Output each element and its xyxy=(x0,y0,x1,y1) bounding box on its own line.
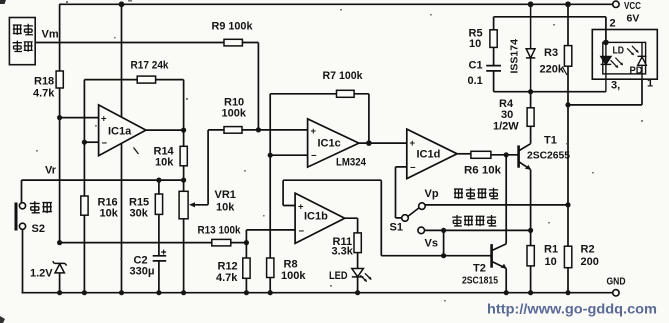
wire: step up to IC1b inverting input xyxy=(246,230,295,243)
svg-text:R1: R1 xyxy=(544,244,558,256)
resistor R4 xyxy=(527,108,534,127)
wire: IC1d output to R6 xyxy=(457,153,471,155)
wire: T1 emitter down through Vs node to R1 xyxy=(530,170,532,246)
wire: IC1c inverting input xyxy=(270,154,307,156)
svg-text:10: 10 xyxy=(469,38,481,50)
junction: zener column on ground rail xyxy=(57,290,62,295)
wire: R12 to ground xyxy=(245,243,247,293)
junction: IC1a inverting input node xyxy=(82,140,87,145)
wire: S2 bottom to ground rail xyxy=(22,230,24,293)
signal source box 调制信号 xyxy=(9,18,35,65)
svg-text:IC1b: IC1b xyxy=(304,211,328,223)
wire: R2 column lower part xyxy=(567,205,569,293)
op-amp IC1c xyxy=(308,119,359,167)
PD reception arrows xyxy=(627,46,639,56)
svg-text:1: 1 xyxy=(647,78,653,90)
svg-text:220k: 220k xyxy=(540,64,565,76)
junction: LED on ground rail xyxy=(355,290,360,295)
resistor R7 xyxy=(337,90,355,97)
junction: R3 on top rail xyxy=(565,1,571,7)
wire: R7 feedback loop xyxy=(270,94,369,155)
svg-text:−: − xyxy=(410,163,416,174)
svg-text:+: + xyxy=(410,138,416,149)
wire: R9 right to IC1c+ column xyxy=(242,43,258,130)
svg-text:LED: LED xyxy=(329,270,348,282)
svg-text:3,: 3, xyxy=(611,80,620,92)
junction: R1 on ground rail xyxy=(528,290,533,295)
svg-text:http://www.go-gddq.com: http://www.go-gddq.com xyxy=(487,301,657,317)
wire: IC1b output to R11 xyxy=(345,218,358,268)
svg-text:LD: LD xyxy=(613,45,625,57)
svg-text:100k: 100k xyxy=(281,270,306,282)
wire: R15 / C2 column xyxy=(158,180,160,293)
wire: R5/C1 snubber column xyxy=(493,17,495,92)
svg-text:+: + xyxy=(311,126,317,137)
junction: R12 on ground rail xyxy=(244,290,249,295)
op-amp IC1d xyxy=(407,129,457,179)
resistor R13 xyxy=(212,239,231,246)
resistor R5 xyxy=(490,30,497,48)
wire: T2 collector up to T1 base node xyxy=(505,155,507,244)
resistor R12 xyxy=(243,258,250,278)
svg-text:2SC2655: 2SC2655 xyxy=(527,150,570,162)
resistor R9 xyxy=(224,39,242,46)
switch S1 common contact xyxy=(402,215,409,222)
C2 polarity plus xyxy=(161,250,166,255)
wire: IC1b non-inverting input loop to S1 sense line xyxy=(283,180,381,256)
wire: R8 column from IC1c- to ground xyxy=(269,155,271,293)
svg-text:+: + xyxy=(298,202,304,213)
svg-text:30: 30 xyxy=(501,109,513,121)
svg-text:VR1: VR1 xyxy=(215,189,236,201)
wire: IC1a inverting input xyxy=(84,141,98,143)
wire: VR1 wiper to R10 left xyxy=(193,130,225,205)
wire: IC1c output to IC1d+ xyxy=(359,142,407,144)
svg-text:R12: R12 xyxy=(218,261,238,273)
svg-text:1.2V: 1.2V xyxy=(30,268,53,280)
junction: IC1c inverting node xyxy=(268,153,273,158)
wire: IC1a non-inverting input xyxy=(60,117,99,119)
wire: reference column from top rail down to zener (node Vz) xyxy=(59,4,61,292)
transistor T2 2SC1815 xyxy=(492,244,507,269)
junction: R3 / PD pin1 node xyxy=(565,102,570,107)
svg-text:T1: T1 xyxy=(544,135,557,147)
top supply rail wire xyxy=(59,3,612,5)
wire: pin1 wire from R3 column to PD xyxy=(568,79,642,105)
wire: Vs current feedback line to T1 emitter/R1 node xyxy=(425,229,531,231)
capacitor C1 xyxy=(486,66,501,71)
resistor R6 xyxy=(471,151,491,158)
svg-text:10: 10 xyxy=(545,256,557,268)
junction: IC1a output node xyxy=(181,128,186,133)
VCC terminal xyxy=(613,1,619,7)
svg-text:R6 10k: R6 10k xyxy=(464,165,502,177)
svg-text:T2: T2 xyxy=(473,263,486,275)
svg-text:R17 24k: R17 24k xyxy=(131,60,170,72)
bottom ground rail wire xyxy=(22,292,613,294)
junction: ISS174 on top rail xyxy=(528,1,534,7)
svg-text:200: 200 xyxy=(581,256,599,268)
svg-text:30k: 30k xyxy=(130,208,149,220)
zener diode 1.2V xyxy=(53,261,67,273)
svg-text:100k: 100k xyxy=(222,108,247,120)
wire: pin3 wire from C1 to LD xyxy=(494,91,606,93)
svg-text:R3: R3 xyxy=(544,47,558,59)
laser module inner frame xyxy=(603,42,646,74)
junction: R6/T1 base/T2 collector node xyxy=(504,152,509,157)
switch S1 contact Vs xyxy=(418,227,425,234)
wire: R6 to T1 base xyxy=(491,154,518,156)
svg-text:C1: C1 xyxy=(469,60,483,72)
wire: R4 top to LD pin3 node xyxy=(530,92,532,108)
scan artifact top-left corner xyxy=(0,0,6,4)
svg-text:R8: R8 xyxy=(284,259,298,271)
junction: zener / R13 wire xyxy=(57,240,62,245)
junction: R18/IC1a+ node xyxy=(57,115,62,120)
photodiode PD xyxy=(638,42,647,79)
label 电流反馈 (current feedback) xyxy=(452,215,496,226)
wire: Vp optical feedback line to R2/PD node xyxy=(425,204,568,206)
switch S1 lever xyxy=(408,208,419,216)
svg-text:−: − xyxy=(311,151,317,162)
junction: R8 on ground rail xyxy=(268,290,273,295)
svg-text:IC1d: IC1d xyxy=(417,149,441,161)
junction: x121 bus on top rail xyxy=(119,1,125,7)
junction: R2 on ground rail xyxy=(565,290,570,295)
LED arrows xyxy=(360,273,371,281)
switch S2 contact top xyxy=(19,203,25,209)
junction: Vs line at R1 top xyxy=(528,228,533,233)
junction: IC1c output node xyxy=(366,140,372,146)
capacitor C2 xyxy=(153,256,167,261)
svg-text:2SC1815: 2SC1815 xyxy=(462,275,498,287)
GND terminal xyxy=(613,290,619,296)
wire: Vs branch down to T2 base wire xyxy=(443,230,445,255)
wire: IC1d inverting input to S1 common xyxy=(396,167,407,218)
switch S2 actuator bar xyxy=(15,203,18,231)
resistor R11 xyxy=(354,233,361,253)
wire: R1 to ground rail xyxy=(530,266,532,293)
junction: x121 bus on ground rail xyxy=(119,290,124,295)
svg-text:R18: R18 xyxy=(34,76,54,88)
potentiometer VR1 xyxy=(179,191,188,219)
svg-text:330μ: 330μ xyxy=(130,266,155,278)
junction: LD anode / pin2 xyxy=(603,40,609,46)
scan stray near IC1a xyxy=(134,148,139,155)
svg-text:S2: S2 xyxy=(32,223,45,235)
svg-text:6V: 6V xyxy=(627,13,640,25)
wire: IC1a output to R14 node xyxy=(146,129,184,131)
junction: Vs line / T2 base branch xyxy=(441,228,446,233)
svg-text:VCC: VCC xyxy=(624,0,641,12)
svg-text:S1: S1 xyxy=(390,222,403,234)
svg-text:IC1a: IC1a xyxy=(108,126,132,138)
wire: pin2 wire from R5 top to module xyxy=(494,17,606,43)
svg-text:+: + xyxy=(101,114,107,125)
wire: R3 column from top rail xyxy=(567,4,569,205)
svg-text:10k: 10k xyxy=(155,157,174,169)
label 复位 (reset) xyxy=(30,201,52,213)
laser module outer case xyxy=(592,30,657,80)
wire: T1 collector up to R4 xyxy=(530,126,532,143)
wire: R13 net from zener node xyxy=(60,242,247,244)
junction: T2 base wire node xyxy=(441,253,446,258)
wire: R17 feedback loop xyxy=(84,80,183,131)
LD emission arrows xyxy=(611,58,624,68)
wire: vertical bus from top rail to ground rail at x=121.5 xyxy=(121,4,123,292)
svg-text:Vm: Vm xyxy=(42,29,59,41)
svg-text:LM324: LM324 xyxy=(336,157,367,169)
resistor R1 xyxy=(527,246,534,266)
wire: T2 base wire xyxy=(381,255,491,257)
svg-text:4.7k: 4.7k xyxy=(216,272,238,284)
svg-text:Vr: Vr xyxy=(45,165,57,177)
junction: R9/R10/IC1c+ node xyxy=(256,127,261,132)
resistor R14 xyxy=(180,146,187,166)
wire: LED cathode to ground rail xyxy=(357,277,359,293)
wire: R14 / VR1 column xyxy=(183,130,185,293)
resistor R3 xyxy=(564,46,571,67)
svg-text:Vp: Vp xyxy=(425,188,439,200)
resistor R8 xyxy=(267,258,274,278)
LED indicator diode xyxy=(352,269,364,277)
junction: VR1 top / Vr wire xyxy=(181,178,186,183)
wire: Vm signal from source box to R9 xyxy=(35,42,224,44)
svg-text:1/2W: 1/2W xyxy=(493,121,519,133)
svg-text:ISS174: ISS174 xyxy=(509,39,521,74)
resistor R18 xyxy=(56,71,63,88)
wire: Vr wire from S2 to VR1 top xyxy=(22,180,184,203)
svg-text:IC1c: IC1c xyxy=(318,138,341,150)
svg-text:0.1: 0.1 xyxy=(468,75,483,87)
resistor R15 xyxy=(155,194,162,214)
svg-text:GND: GND xyxy=(607,276,626,288)
junction: R16 on ground rail xyxy=(82,290,87,295)
svg-text:R7 100k: R7 100k xyxy=(323,70,364,82)
svg-text:R2: R2 xyxy=(581,244,595,256)
switch S2 contact bottom xyxy=(19,223,25,229)
svg-text:−: − xyxy=(102,138,108,149)
scan artifact bottom-left corner xyxy=(0,316,5,323)
switch S1 contact Vp xyxy=(419,203,426,210)
junction: Vp line at R2 top xyxy=(565,202,570,207)
wire: T2 emitter to ground rail xyxy=(505,268,507,292)
junction: pin3/C1/R4/ISS174 node xyxy=(528,89,533,94)
resistor R17 xyxy=(137,76,155,83)
junction: R15 top on Vr wire xyxy=(156,178,161,183)
junction: R13/R12/IC1b- node xyxy=(244,240,249,245)
op-amp IC1a xyxy=(99,105,146,156)
resistor R2 xyxy=(564,246,571,268)
junction: T2 emitter on ground rail xyxy=(504,290,509,295)
laser diode LD xyxy=(601,42,612,91)
resistor R16 xyxy=(81,196,88,215)
label 光负反馈 (optical negative feedback) xyxy=(454,188,498,199)
junction: VR1 column on ground rail xyxy=(181,290,186,295)
svg-text:10k: 10k xyxy=(100,208,119,220)
transistor T1 2SC2655 xyxy=(519,144,531,170)
svg-text:PD: PD xyxy=(630,65,643,77)
svg-text:10k: 10k xyxy=(216,202,235,214)
VR1 wiper arrowhead xyxy=(189,202,195,207)
wire: R10 right to IC1c non-inverting input xyxy=(242,129,308,131)
stray mark after 220k xyxy=(563,67,568,75)
wire: R16 column (IC1a inverting node down to ground) xyxy=(83,80,85,293)
svg-text:−: − xyxy=(299,226,305,237)
op-amp IC1b xyxy=(295,193,345,243)
svg-text:R13 100k: R13 100k xyxy=(198,225,242,237)
resistor R10 xyxy=(224,127,242,134)
svg-text:3.3k: 3.3k xyxy=(332,246,354,258)
junction: C2 on ground rail xyxy=(156,290,161,295)
diode ISS174 xyxy=(526,4,535,91)
svg-text:R9 100k: R9 100k xyxy=(212,21,254,33)
svg-text:4.7k: 4.7k xyxy=(33,88,55,100)
svg-text:2: 2 xyxy=(610,18,616,30)
svg-text:Vs: Vs xyxy=(425,238,438,250)
